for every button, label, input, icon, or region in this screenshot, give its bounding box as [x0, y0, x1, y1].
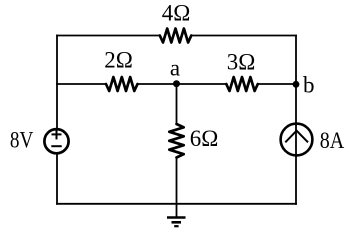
node b dot: [293, 81, 300, 88]
resistor 4ohm: [160, 29, 192, 43]
voltage source plus sign: [52, 129, 62, 139]
ground bar 1: [167, 216, 186, 219]
wire right (through current source): [295, 36, 297, 204]
wire bottom: [57, 203, 296, 205]
resistor 6ohm: [169, 124, 183, 158]
ground bar 2: [172, 221, 182, 224]
wire left lower: [56, 154, 58, 204]
svg-text:4Ω: 4Ω: [162, 1, 191, 26]
wire middle right of 3-ohm: [258, 83, 296, 85]
wire left upper: [56, 36, 58, 129]
svg-text:6Ω: 6Ω: [190, 126, 219, 151]
svg-text:2Ω: 2Ω: [104, 47, 133, 72]
svg-text:a: a: [170, 56, 180, 81]
wire top-right segment: [191, 35, 296, 37]
current source arrow head: [285, 131, 308, 143]
ground bar 3: [174, 225, 178, 227]
wire middle left of 2-ohm: [57, 83, 106, 85]
svg-text:3Ω: 3Ω: [227, 50, 256, 75]
wire top-left segment: [57, 35, 160, 37]
wire node a to 6-ohm: [176, 84, 178, 124]
voltage source 8V circle: [44, 129, 68, 153]
svg-text:b: b: [303, 73, 315, 98]
resistor 2ohm: [106, 77, 138, 91]
wire middle between 2-ohm and 3-ohm: [138, 83, 227, 85]
svg-text:8A: 8A: [320, 128, 345, 153]
current source 8A circle: [281, 124, 313, 156]
node a dot: [173, 80, 180, 87]
svg-text:8V: 8V: [10, 127, 34, 152]
voltage source minus sign: [51, 145, 61, 147]
wire 6-ohm to ground: [176, 158, 178, 218]
resistor 3ohm: [226, 77, 257, 91]
